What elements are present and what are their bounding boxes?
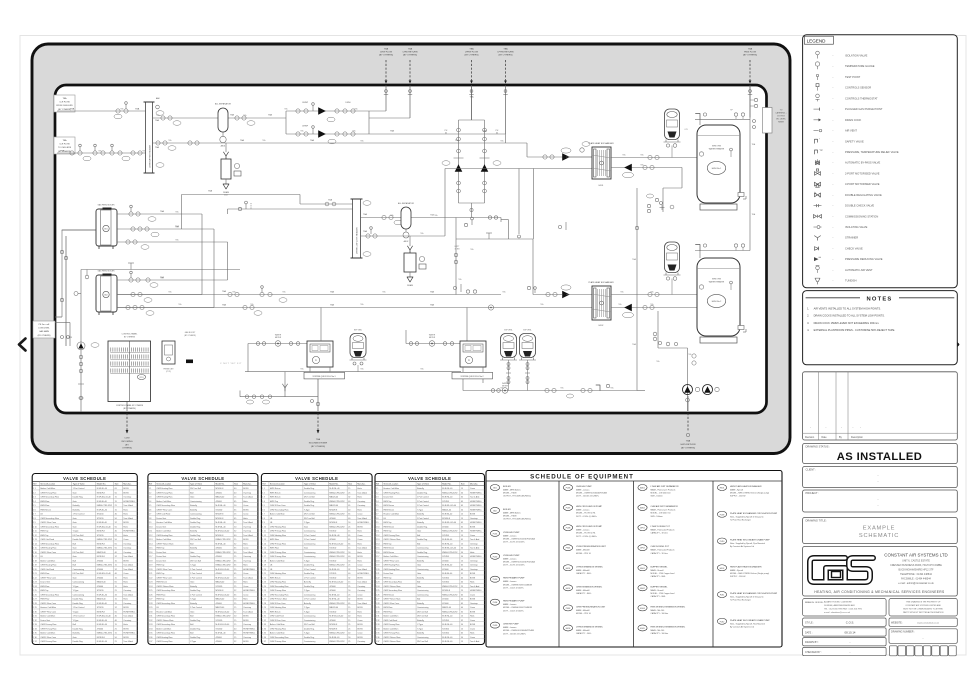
- svg-text:DN Turn Ball: DN Turn Ball: [73, 572, 84, 575]
- svg-text:GAS BOOST: GAS BOOST: [185, 331, 196, 334]
- svg-text:Comissioning: Comissioning: [417, 590, 428, 592]
- pump PU04: [562, 291, 570, 299]
- legend row 17: [814, 226, 817, 228]
- svg-text:Hatts: Hatts: [470, 581, 474, 584]
- svg-text:40: 40: [461, 582, 463, 584]
- svg-text:Note - Supplied by Rycro: Note - Supplied by Rycroft @ Integral to: [730, 596, 763, 599]
- svg-text:BOSS: BOSS: [123, 492, 129, 494]
- svg-text:1 8: 1 8: [149, 518, 152, 520]
- svg-text:PROJECT :: PROJECT :: [806, 491, 820, 495]
- svg-text:BOSS: BOSS: [357, 607, 363, 609]
- svg-text:M74DF-8: M74DF-8: [215, 514, 223, 516]
- svg-text:15: 15: [461, 560, 463, 562]
- svg-text:M 4F-NL-40: M 4F-NL-40: [442, 637, 452, 639]
- svg-text:Tour & And.: Tour & And.: [243, 610, 253, 613]
- svg-text:FACSIMILE : 01494 448544: FACSIMILE : 01494 448544: [901, 578, 931, 581]
- svg-text:Crane: Crane: [243, 504, 248, 507]
- svg-text:Y-Type: Y-Type: [304, 560, 310, 562]
- svg-text:S7245D: S7245D: [97, 514, 104, 516]
- svg-text:Hatts: Hatts: [470, 615, 474, 618]
- svg-text:1 32: 1 32: [149, 620, 153, 622]
- svg-text:-: -: [853, 427, 854, 430]
- svg-text:50: 50: [461, 492, 463, 494]
- svg-text:KMB4-C785-3292: KMB4-C785-3292: [329, 492, 344, 494]
- svg-text:65: 65: [461, 505, 463, 507]
- svg-text:M 4F-NL-40: M 4F-NL-40: [442, 624, 452, 626]
- svg-text:CHW PRESSURISATION UNIT: CHW PRESSURISATION UNIT: [576, 605, 606, 608]
- svg-text:BOSS: BOSS: [357, 599, 363, 601]
- svg-text:M 4F-BL-40: M 4F-BL-40: [442, 573, 452, 575]
- svg-text:MAKE - Fabricated Product: MAKE - Fabricated Products: [651, 549, 675, 552]
- vertical main x=637: [636, 188, 638, 391]
- svg-text:1 27: 1 27: [149, 599, 153, 601]
- svg-text:MAKE - Mikrofill: MAKE - Mikrofill: [576, 629, 590, 632]
- svg-text:15: 15: [234, 624, 236, 626]
- svg-text:(BY OTHERS): (BY OTHERS): [498, 54, 512, 56]
- svg-text:1 Port Control: 1 Port Control: [417, 496, 429, 499]
- valve schedule table 1: [32, 474, 137, 645]
- svg-text:470000: 470000: [215, 501, 221, 503]
- svg-text:DRAWING NUMBER :: DRAWING NUMBER :: [891, 631, 915, 634]
- svg-text:25: 25: [348, 492, 350, 494]
- svg-text:SYSTEM QUICK FILL No.1: SYSTEM QUICK FILL No.1: [312, 376, 335, 378]
- svg-text:32: 32: [234, 590, 236, 592]
- legend row 16: [814, 215, 817, 219]
- svg-text:Double Reg.: Double Reg.: [190, 556, 201, 558]
- svg-text:Y-Type: Y-Type: [73, 620, 79, 622]
- svg-text:M74DF-8: M74DF-8: [329, 624, 337, 626]
- svg-text:1 31: 1 31: [33, 616, 37, 618]
- svg-text:INCOMING: INCOMING: [121, 441, 132, 443]
- svg-text:Hatts: Hatts: [243, 564, 247, 567]
- svg-text:LEGEND: LEGEND: [807, 38, 827, 43]
- svg-text:CHW F Return Main: CHW F Return Main: [156, 585, 173, 588]
- svg-text:Gate: Gate: [73, 555, 77, 558]
- svg-text:1 9: 1 9: [262, 522, 265, 524]
- svg-text:Crane: Crane: [243, 547, 248, 550]
- svg-text:GAS FIRED BOILER: GAS FIRED BOILER: [98, 270, 115, 273]
- svg-text:40: 40: [348, 509, 350, 511]
- svg-text:Model No.: Model No.: [97, 484, 107, 486]
- svg-text:CHW Primary Flow: CHW Primary Flow: [270, 640, 287, 643]
- svg-text:40: 40: [348, 616, 350, 618]
- svg-text:40: 40: [234, 535, 236, 537]
- svg-text:Double Reg.: Double Reg.: [304, 505, 315, 507]
- svg-text:15: 15: [461, 543, 463, 545]
- svg-text:"T/P: "T/P: [819, 150, 823, 152]
- svg-text:KMB4-C785-3292: KMB4-C785-3292: [442, 611, 457, 613]
- svg-text:MB423-40: MB423-40: [442, 607, 451, 609]
- svg-text:1 21: 1 21: [33, 573, 37, 575]
- svg-text:(BY OTHERS): (BY OTHERS): [184, 335, 196, 337]
- svg-text:Gate: Gate: [190, 581, 194, 584]
- svg-text:Boilers Cold Main: Boilers Cold Main: [156, 530, 171, 533]
- svg-text:Double Reg.: Double Reg.: [190, 522, 201, 524]
- svg-text:-: -: [810, 427, 811, 430]
- svg-text:1 18: 1 18: [262, 560, 266, 562]
- svg-text:(BY OTHERS): (BY OTHERS): [123, 408, 136, 410]
- svg-text:Double Reg.: Double Reg.: [190, 637, 201, 639]
- svg-text:50: 50: [115, 492, 117, 494]
- svg-text:1 8: 1 8: [376, 518, 379, 520]
- svg-text:Description: Description: [851, 436, 864, 439]
- svg-text:AS02: AS02: [640, 507, 644, 510]
- svg-text:PLUGGED GAS PURGE POINT: PLUGGED GAS PURGE POINT: [845, 107, 883, 111]
- svg-text:65: 65: [234, 594, 236, 596]
- svg-text:Double Reg.: Double Reg.: [73, 628, 84, 630]
- valve schedule table 3: [261, 474, 372, 645]
- svg-text:65: 65: [461, 539, 463, 541]
- pipe manifold1 to pumpset y=118: [153, 117, 287, 119]
- svg-text:DN Turn Ball: DN Turn Ball: [304, 496, 315, 499]
- svg-text:HONEYWELL: HONEYWELL: [243, 569, 255, 571]
- svg-text:Tour & And.: Tour & And.: [243, 534, 253, 537]
- svg-text:15: 15: [348, 548, 350, 550]
- svg-text:HWS Return: HWS Return: [270, 576, 281, 579]
- svg-text:CHW F Return Main: CHW F Return Main: [383, 585, 400, 588]
- svg-text:CHW F Flow Conn: CHW F Flow Conn: [383, 560, 399, 562]
- svg-text:PRESSURE, TEMPERATURE RELIEF V: PRESSURE, TEMPERATURE RELIEF VALVE: [845, 150, 899, 154]
- svg-text:Double Reg.: Double Reg.: [304, 586, 315, 588]
- svg-text:CWS: CWS: [68, 337, 73, 339]
- svg-text:Double Reg.: Double Reg.: [73, 539, 84, 541]
- svg-text:CRESSEX BUSINESS PARK, HIGH WY: CRESSEX BUSINESS PARK, HIGH WYCOMBE: [890, 564, 942, 567]
- svg-text:PU10: PU10: [720, 541, 725, 543]
- svg-text:MB423-40: MB423-40: [215, 607, 224, 609]
- svg-text:S7245D: S7245D: [442, 582, 449, 584]
- svg-text:Crane: Crane: [123, 572, 128, 575]
- svg-text:METER: METER: [275, 337, 282, 339]
- svg-text:1 29: 1 29: [262, 607, 266, 609]
- svg-text:TBA: TBA: [328, 199, 333, 202]
- svg-text:1 36: 1 36: [376, 637, 380, 639]
- svg-text:M74DF-8: M74DF-8: [442, 518, 450, 520]
- svg-text:NOTES: NOTES: [867, 296, 893, 302]
- svg-text:BOSS: BOSS: [123, 637, 129, 639]
- svg-text:1 11: 1 11: [149, 531, 153, 533]
- svg-text:1 22: 1 22: [376, 577, 380, 579]
- svg-text:1 1: 1 1: [376, 488, 379, 490]
- svg-text:CHW Secondary Flow: CHW Secondary Flow: [40, 525, 59, 528]
- svg-text:25: 25: [115, 505, 117, 507]
- TBA incoming riser crossing: [317, 377, 319, 411]
- svg-text:HWS Top: HWS Top: [40, 590, 48, 592]
- svg-text:BOSS: BOSS: [357, 577, 363, 579]
- svg-text:3.: 3.: [807, 321, 809, 325]
- svg-text:DUTY - 10.61l/s @ 128kPa: DUTY - 10.61l/s @ 128kPa: [503, 633, 527, 635]
- HX2 secondary piping: [611, 294, 697, 296]
- svg-text:Butterfly: Butterfly: [417, 521, 424, 524]
- svg-text:DRAWING TITLE :: DRAWING TITLE :: [806, 518, 828, 522]
- svg-text:Gate: Gate: [73, 525, 77, 528]
- svg-text:Boilers Cold Main: Boilers Cold Main: [270, 623, 285, 626]
- svg-text:4.: 4.: [807, 328, 809, 332]
- svg-text:CLR FLOW: CLR FLOW: [59, 102, 69, 104]
- svg-text:Hatts: Hatts: [123, 534, 127, 537]
- svg-text:M 4F-B1-L05-40: M 4F-B1-L05-40: [442, 505, 456, 507]
- svg-text:1 11: 1 11: [33, 531, 37, 533]
- svg-text:M 4F-NL-40: M 4F-NL-40: [442, 641, 452, 643]
- svg-text:S7245D: S7245D: [329, 611, 336, 613]
- svg-text:Oventrop: Oventrop: [243, 491, 251, 494]
- svg-text:BOSS: BOSS: [357, 637, 363, 639]
- svg-text:CAPACITY - 800 L: CAPACITY - 800 L: [576, 572, 592, 575]
- pipe to HX1 flow: [506, 142, 528, 144]
- svg-text:32: 32: [115, 607, 117, 609]
- svg-text:1 24: 1 24: [149, 586, 153, 588]
- svg-text:Butterfly: Butterfly: [417, 602, 424, 605]
- svg-text:M 4F-BL-40: M 4F-BL-40: [215, 543, 225, 545]
- svg-text:S7245D: S7245D: [97, 607, 104, 609]
- svg-text:Drains Vent: Drains Vent: [156, 525, 166, 528]
- svg-text:KMB4-C785-3292: KMB4-C785-3292: [442, 594, 457, 596]
- svg-text:1 2: 1 2: [262, 492, 265, 494]
- svg-text:1 9: 1 9: [149, 522, 152, 524]
- svg-text:CHW Heating Flow: CHW Heating Flow: [270, 581, 287, 584]
- svg-text:M 4F-B1-L05-40: M 4F-B1-L05-40: [215, 594, 229, 596]
- svg-text:BOSS: BOSS: [243, 616, 249, 618]
- pipe CHW flow from chillers: [57, 110, 146, 112]
- svg-text:Gate: Gate: [73, 500, 77, 503]
- svg-text:1 27: 1 27: [33, 599, 37, 601]
- svg-text:EXAMPLE: EXAMPLE: [863, 526, 895, 532]
- drawing status box: AS INSTALLED: [803, 444, 958, 464]
- svg-text:Y-Type: Y-Type: [304, 633, 310, 635]
- svg-text:1 1: 1 1: [262, 488, 265, 490]
- svg-text:CHW Secondary Flow: CHW Secondary Flow: [156, 623, 175, 626]
- svg-text:Y-Type: Y-Type: [190, 599, 196, 601]
- svg-text:M 4F-BL-40: M 4F-BL-40: [442, 539, 452, 541]
- svg-text:PU01: PU01: [493, 533, 498, 535]
- svg-text:1 10: 1 10: [376, 526, 380, 528]
- manifold 2: [353, 199, 361, 258]
- svg-text:15: 15: [461, 616, 463, 618]
- svg-text:BOSS: BOSS: [243, 620, 249, 622]
- svg-text:Comissioning: Comissioning: [304, 492, 315, 494]
- svg-text:DUNDEE, ABERDEENSHIRE AB1: DUNDEE, ABERDEENSHIRE AB1: [824, 604, 856, 607]
- svg-text:HWS Top: HWS Top: [156, 573, 164, 575]
- svg-text:METER: METER: [429, 337, 436, 339]
- svg-text:DRAWING STATUS :: DRAWING STATUS :: [806, 444, 831, 448]
- svg-text:DN Turn Ball: DN Turn Ball: [304, 513, 315, 516]
- svg-text:Double Reg.: Double Reg.: [190, 526, 201, 528]
- svg-text:65: 65: [348, 535, 350, 537]
- svg-text:M 4F-BL-40: M 4F-BL-40: [215, 522, 225, 524]
- svg-text:470000: 470000: [329, 539, 335, 541]
- svg-text:To Plate Heat Exchanger: To Plate Heat Exchanger: [730, 599, 751, 602]
- svg-text:65: 65: [234, 548, 236, 550]
- svg-text:Y-Type: Y-Type: [304, 607, 310, 609]
- svg-text:CHECK VALVE: CHECK VALVE: [845, 246, 863, 250]
- svg-text:Crane: Crane: [470, 619, 475, 622]
- svg-text:KMB4-C785-3292: KMB4-C785-3292: [329, 526, 344, 528]
- svg-text:CHW F Return Main: CHW F Return Main: [270, 598, 287, 601]
- svg-text:CHW Heating Flow: CHW Heating Flow: [270, 572, 287, 575]
- svg-text:MODEL - FLOW 50 HL: MODEL - FLOW 50 HL: [576, 513, 595, 515]
- svg-text:MAKE - Mikrofill: MAKE - Mikrofill: [576, 569, 590, 572]
- svg-text:HWS Flow: HWS Flow: [40, 573, 50, 575]
- svg-text:Gate: Gate: [304, 525, 308, 528]
- svg-text:Boilers Cold Main: Boilers Cold Main: [156, 538, 171, 541]
- svg-text:PLATE HEAT SECONDARY DRAIN PUM: PLATE HEAT SECONDARY DRAIN PUMP: [730, 619, 770, 622]
- svg-text:DOUBLE CHECK VALVE: DOUBLE CHECK VALVE: [845, 204, 874, 208]
- svg-text:CHW Heating Flow: CHW Heating Flow: [156, 496, 173, 499]
- svg-text:Oventrop: Oventrop: [357, 640, 365, 643]
- svg-text:TEL : 0123 456 7890 FAX : 012: TEL : 0123 456 7890 FAX : 0123 456 7891: [824, 608, 863, 611]
- revision table: [803, 372, 958, 440]
- svg-text:HONEYWELL: HONEYWELL: [243, 628, 255, 630]
- svg-text:Y-Type: Y-Type: [304, 522, 310, 524]
- svg-text:Service/Location: Service/Location: [270, 483, 285, 486]
- svg-text:1 37: 1 37: [33, 641, 37, 643]
- svg-text:CHW Primary Flow: CHW Primary Flow: [383, 632, 400, 635]
- svg-text:MAKE - MHS Boilers: MAKE - MHS Boilers: [503, 489, 521, 492]
- svg-text:08.10.14: 08.10.14: [845, 630, 856, 634]
- svg-text:-: -: [833, 65, 834, 68]
- svg-text:M 4F-BL-40: M 4F-BL-40: [442, 514, 452, 516]
- svg-text:1 20: 1 20: [376, 569, 380, 571]
- svg-text:Hatts: Hatts: [243, 542, 247, 545]
- svg-text:STYLE :: STYLE :: [805, 622, 814, 625]
- svg-text:EV02: EV02: [566, 588, 570, 590]
- svg-text:HX02: HX02: [720, 568, 725, 570]
- svg-text:C NOT YET FIT: C NOT YET FIT: [220, 363, 242, 365]
- svg-text:M 4F-B1-L05-40: M 4F-B1-L05-40: [442, 522, 456, 524]
- svg-text:1 5: 1 5: [149, 505, 152, 507]
- legend row 13: [815, 182, 818, 186]
- svg-text:CAPACITY - 18 Litre: CAPACITY - 18 Litre: [651, 532, 668, 535]
- svg-text:1 2: 1 2: [33, 492, 36, 494]
- svg-text:40: 40: [348, 556, 350, 558]
- svg-text:TBA: TBA: [632, 343, 637, 346]
- svg-text:BOSS: BOSS: [357, 628, 363, 630]
- svg-text:40: 40: [234, 628, 236, 630]
- TBA return crossing: [687, 396, 689, 411]
- svg-text:Drains Vent: Drains Vent: [40, 581, 50, 584]
- svg-text:Comissioning: Comissioning: [417, 607, 428, 609]
- long pipe y=371.6: [245, 371, 461, 373]
- svg-text:CAPACITY - 500 L: CAPACITY - 500 L: [576, 632, 592, 635]
- svg-text:By Constant Air Systems Ltd: By Constant Air Systems Ltd: [730, 545, 754, 548]
- svg-text:MODEL - PFU 10: MODEL - PFU 10: [576, 613, 591, 615]
- svg-text:40: 40: [115, 573, 117, 575]
- svg-text:MAKE - Mik 100: MAKE - Mik 100: [651, 609, 665, 612]
- svg-text:M 4F-NL-40: M 4F-NL-40: [442, 497, 452, 499]
- svg-text:Hatts: Hatts: [243, 598, 247, 601]
- svg-text:CHW Cold Feed: CHW Cold Feed: [40, 569, 54, 571]
- svg-text:Comissioning: Comissioning: [304, 531, 315, 533]
- svg-text:HWH No.2: HWH No.2: [712, 301, 722, 303]
- svg-text:MAKE - Lowara: MAKE - Lowara: [576, 529, 590, 532]
- sensor cluster mid-run: [453, 286, 456, 289]
- svg-text:Crane: Crane: [470, 487, 475, 490]
- svg-text:1 3: 1 3: [149, 497, 152, 499]
- svg-text:470000: 470000: [215, 641, 221, 643]
- svg-text:1 19: 1 19: [149, 565, 153, 567]
- svg-text:-: -: [841, 427, 842, 430]
- quick fill panel 2: [460, 341, 486, 367]
- svg-text:HWS Return: HWS Return: [383, 508, 394, 511]
- svg-text:1 29: 1 29: [376, 607, 380, 609]
- left nav chevron: [19, 339, 26, 351]
- svg-text:M74DF-8: M74DF-8: [215, 488, 223, 490]
- valve cluster on pipe y=153: [70, 151, 74, 155]
- legend row 19: [815, 247, 819, 251]
- svg-text:1 13: 1 13: [149, 539, 153, 541]
- svg-text:KMB4-C785-3292: KMB4-C785-3292: [329, 565, 344, 567]
- svg-text:LPHW RETURN: LPHW RETURN: [497, 51, 513, 53]
- svg-text:S7245D: S7245D: [442, 501, 449, 503]
- svg-text:Crane: Crane: [243, 593, 248, 596]
- svg-text:Tour & And.: Tour & And.: [123, 564, 133, 567]
- svg-text:1 31: 1 31: [149, 616, 153, 618]
- svg-text:65: 65: [461, 565, 463, 567]
- svg-text:CHW F Flow Conn: CHW F Flow Conn: [383, 603, 399, 605]
- svg-text:Boilers Cold Main: Boilers Cold Main: [270, 559, 285, 562]
- svg-text:Manufac.: Manufac.: [243, 484, 252, 486]
- svg-text:CHW Secondary Flow: CHW Secondary Flow: [40, 496, 59, 499]
- svg-text:Butterfly: Butterfly: [417, 619, 424, 622]
- svg-text:40: 40: [234, 582, 236, 584]
- svg-text:Hatts: Hatts: [357, 496, 361, 499]
- svg-text:MAKE - Lowara: MAKE - Lowara: [576, 509, 590, 512]
- left band label low: [33, 321, 55, 338]
- LPHW return run: [117, 307, 592, 309]
- svg-text:1 6: 1 6: [33, 509, 36, 511]
- svg-text:Ref: Ref: [33, 484, 37, 486]
- svg-text:KMB4-C785-3292: KMB4-C785-3292: [442, 492, 457, 494]
- svg-text:25: 25: [234, 607, 236, 609]
- svg-text:BOILER: BOILER: [503, 509, 511, 511]
- svg-text:Butterfly: Butterfly: [73, 508, 80, 511]
- svg-text:M 4F-BL-40: M 4F-BL-40: [215, 526, 225, 528]
- svg-text:TELEPHONE : 01494 448844: TELEPHONE : 01494 448844: [900, 573, 932, 576]
- svg-text:KMB4-C785-3292: KMB4-C785-3292: [329, 633, 344, 635]
- svg-text:STRAINER: STRAINER: [845, 236, 858, 240]
- svg-text:BOSS: BOSS: [357, 624, 363, 626]
- svg-text:Butterfly: Butterfly: [190, 547, 197, 550]
- svg-text:32: 32: [461, 620, 463, 622]
- svg-text:-: -: [833, 269, 834, 272]
- legend row 10: [815, 150, 818, 154]
- svg-text:Type of Valve: Type of Valve: [73, 484, 86, 486]
- svg-text:1 Port Control: 1 Port Control: [190, 606, 202, 609]
- svg-text:M 4F-B1-L05-40: M 4F-B1-L05-40: [442, 548, 456, 550]
- svg-text:SIZE - 150mm: SIZE - 150mm: [651, 496, 664, 498]
- svg-text:15: 15: [348, 607, 350, 609]
- svg-text:CHW H/E PUMP: CHW H/E PUMP: [576, 486, 592, 488]
- boiler B1: [96, 209, 117, 246]
- svg-text:1 Port Control: 1 Port Control: [190, 576, 202, 579]
- svg-text:01: 01: [445, 133, 447, 135]
- svg-text:1 34: 1 34: [149, 628, 153, 630]
- svg-text:HWS Return: HWS Return: [270, 491, 281, 494]
- svg-text:S7245D: S7245D: [329, 573, 336, 575]
- svg-text:Hatts: Hatts: [243, 581, 247, 584]
- svg-text:MAKE - Mikrofill: MAKE - Mikrofill: [576, 609, 590, 612]
- svg-text:65: 65: [234, 509, 236, 511]
- svg-text:M 4F-BL-40: M 4F-BL-40: [97, 522, 107, 524]
- svg-text:MODEL - LNESH 40/125/11/P02: MODEL - LNESH 40/125/11/P02546A: [503, 537, 535, 540]
- svg-text:KMB4-C785-3292: KMB4-C785-3292: [329, 514, 344, 516]
- svg-text:1 13: 1 13: [376, 539, 380, 541]
- svg-text:MODEL - LNESH 40/160/40/P25: MODEL - LNESH 40/160/40/P2546B: [503, 630, 535, 632]
- svg-text:Double Reg.: Double Reg.: [304, 488, 315, 490]
- svg-text:1 Port Control: 1 Port Control: [304, 598, 316, 601]
- svg-text:1 33: 1 33: [262, 624, 266, 626]
- svg-text:HWS Top: HWS Top: [156, 599, 164, 601]
- svg-text:TBA: TBA: [503, 48, 508, 51]
